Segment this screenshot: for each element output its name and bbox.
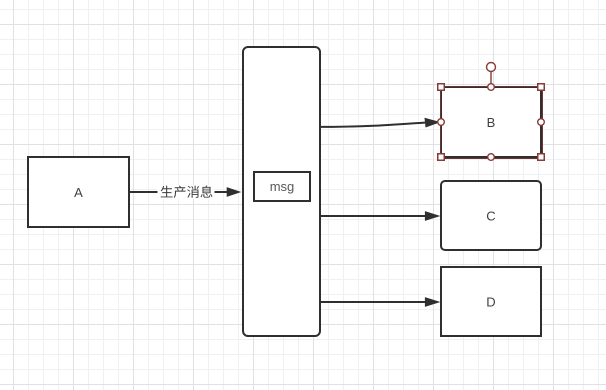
svg-text:B: B xyxy=(487,115,496,130)
svg-text:msg: msg xyxy=(270,179,295,194)
svg-text:A: A xyxy=(74,185,83,200)
svg-text:D: D xyxy=(486,294,495,309)
svg-text:C: C xyxy=(486,208,495,223)
